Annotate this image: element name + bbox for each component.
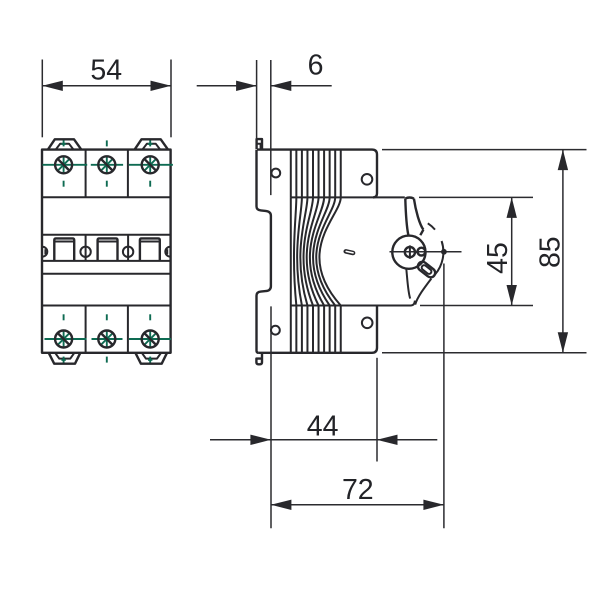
toggle wedge lower corner (420, 230, 423, 236)
toggle handle pole1 (54, 238, 74, 261)
moulding ribs (curved mid-section fan) (294, 197, 341, 305)
handle travel arc (dash) (428, 223, 435, 229)
OFF indicator slot on body (343, 249, 356, 256)
knob screw circle (405, 247, 415, 257)
terminal screw T3 (top pole3) (129, 140, 173, 186)
switch band divider left with lock circle (85, 235, 87, 261)
handle travel node dot (441, 249, 447, 255)
moulding ribs (top cap verticals) (291, 150, 341, 198)
dim 6 arrow left (236, 81, 257, 91)
clip plate hole top (271, 169, 280, 178)
breaker body outline (front view) (42, 150, 171, 353)
bottom mounting tab pole1 inner (55, 353, 74, 359)
tab centerline cross pole3 top (148, 143, 152, 145)
terminal screw B3 (bottom pole3) (129, 314, 171, 362)
pole divider top-right (127, 150, 129, 198)
dim 6 line right tail (271, 85, 332, 87)
dim 85 extension line bottom (382, 352, 587, 354)
dim 54 line (42, 85, 171, 87)
svg-text:44: 44 (307, 410, 339, 442)
pole divider bottom-left (85, 306, 87, 353)
tab centerline cross pole1 bottom (61, 359, 65, 361)
DIN rail clip bottom foot (256, 353, 262, 365)
dim 6 extension line right (270, 60, 272, 195)
dim 6 line left tail (197, 85, 257, 87)
top terminal section bottom line (42, 196, 171, 198)
dim 6 extension line left (256, 60, 258, 139)
release lever outer capsule (416, 260, 437, 279)
dim 72 arrow right (423, 500, 444, 510)
cap hole top (362, 174, 373, 185)
dim 45 extension line bottom (420, 305, 533, 307)
dim 54 extension line left (41, 60, 43, 138)
FRONTVIEW (42, 139, 173, 363)
dim 85 arrow bottom (558, 332, 568, 353)
pole divider top-left (85, 150, 87, 198)
bottom terminal section top line (42, 305, 171, 307)
moulding ribs (bottom cap verticals) (291, 306, 341, 353)
release lever inner capsule (421, 264, 433, 275)
toggle handle pole2 (98, 238, 118, 261)
DIN rail clip back profile (257, 150, 271, 353)
top edge of curved front section (291, 196, 405, 198)
knob axis small circle (418, 248, 426, 256)
switch band divider right with lock circle (127, 235, 129, 261)
top mounting tab pole1 outer (48, 139, 81, 149)
DIMENSIONS (42, 49, 586, 528)
right edge lock semicircle (165, 247, 170, 257)
toggle handle pole3 (140, 238, 160, 261)
SIDEVIEW (256, 139, 461, 364)
dim 85 line (562, 150, 564, 353)
svg-text:85: 85 (535, 236, 567, 268)
svg-text:6: 6 (308, 49, 324, 81)
knob horizontal centerline (390, 251, 462, 253)
toggle wedge right edge (414, 199, 424, 230)
dim 54 extension line right (170, 60, 172, 138)
dim 54 arrow right (151, 81, 172, 91)
rib area left boundary (290, 197, 292, 305)
top mounting tab pole1 inner (56, 144, 74, 150)
toggle wedge top arc (405, 198, 414, 199)
handle travel arc (main) (435, 241, 443, 274)
terminal screw T2 (top pole2) (91, 140, 123, 186)
dim 45 line (511, 197, 513, 305)
svg-text:45: 45 (482, 242, 514, 274)
knob screw vertical slot (409, 245, 411, 258)
tab centerline cross pole1 top (61, 143, 65, 145)
top cap outline (257, 150, 377, 198)
dim 72 arrow left (271, 500, 292, 510)
bottom cap outline (259, 306, 377, 353)
bottom mounting tab pole1 outer (49, 353, 81, 364)
switch band top line (42, 234, 171, 236)
dim 45 arrow bottom (507, 285, 517, 306)
dim 85 extension line top (382, 149, 587, 151)
top mounting tab pole3 inner (142, 144, 160, 150)
bottom mounting tab pole3 inner (142, 353, 161, 359)
bottom mounting tab pole3 outer (135, 353, 167, 364)
dim 72 extension line right (443, 264, 445, 529)
toggle wedge left edge (405, 199, 408, 235)
front face line below knob (inner) (406, 269, 410, 299)
terminal screw B1 (bottom pole1) (45, 314, 87, 362)
dim 6 arrow right (271, 81, 292, 91)
dim 85 arrow top (558, 150, 568, 171)
svg-text:72: 72 (342, 474, 374, 506)
cap hole bottom (362, 318, 373, 329)
dim 44 extension line right (376, 358, 378, 462)
dim 44/72 shared extension line (270, 306, 272, 528)
dim 45 arrow top (507, 197, 517, 218)
svg-text:54: 54 (90, 54, 122, 86)
switch band bottom line (42, 260, 171, 262)
dim 44 line (210, 439, 437, 441)
knob axis connector (414, 251, 418, 253)
pole divider bottom-right (127, 306, 129, 353)
dim 44 arrow right (377, 435, 398, 445)
DIN rail clip top hook (257, 139, 262, 149)
dim 45 extension line top (419, 196, 533, 198)
dim 44 arrow left (250, 435, 271, 445)
lower accent line (42, 273, 171, 275)
terminal screw T1 (top pole1) (43, 140, 88, 186)
bottom edge of curved front section (291, 301, 415, 306)
tab centerline cross pole3 bottom (148, 359, 152, 361)
front face line below knob (outer) (415, 279, 431, 305)
clip plate hole bottom (271, 326, 280, 335)
dim 72 line (271, 504, 444, 506)
terminal screw B2 (bottom pole2) (92, 314, 123, 362)
rotary knob circle (392, 236, 425, 269)
dim 54 arrow left (42, 81, 63, 91)
top mounting tab pole3 outer (135, 139, 168, 149)
left edge lock semicircle (42, 247, 47, 257)
